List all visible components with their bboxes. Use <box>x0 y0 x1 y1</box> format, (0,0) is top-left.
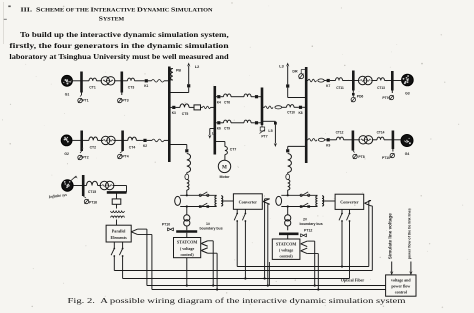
svg-text:K9: K9 <box>326 143 330 147</box>
svg-text:CT13: CT13 <box>377 86 385 90</box>
svg-text:PT10: PT10 <box>162 223 170 227</box>
svg-text:CT1: CT1 <box>89 86 96 90</box>
svg-text:Parallel: Parallel <box>112 228 127 233</box>
svg-text:PT10: PT10 <box>382 156 390 160</box>
svg-text:control): control) <box>181 253 195 257</box>
svg-text:K2: K2 <box>143 144 147 148</box>
svg-text:CT5: CT5 <box>182 112 189 116</box>
svg-text:PT12: PT12 <box>304 229 312 233</box>
svg-text:CT2: CT2 <box>90 145 97 149</box>
svg-text:CT15: CT15 <box>88 190 96 194</box>
svg-text:Elements: Elements <box>111 235 128 240</box>
svg-text:laboratory at Tsinghua Univers: laboratory at Tsinghua University must b… <box>9 52 229 61</box>
svg-text:K3: K3 <box>172 111 176 115</box>
svg-text:K7: K7 <box>326 84 330 88</box>
svg-text:PT9: PT9 <box>382 96 388 100</box>
svg-text:CT6: CT6 <box>224 101 230 105</box>
svg-text:firstly, the four generators i: firstly, the four generators in the dyna… <box>9 41 229 50</box>
svg-text:G2: G2 <box>64 152 69 156</box>
svg-text:L3: L3 <box>279 65 283 69</box>
svg-text:2#: 2# <box>303 218 307 222</box>
svg-text:Fig. 2. A possible wiring dia: Fig. 2. A possible wiring diagram of the… <box>68 297 407 305</box>
svg-text:boundary bus: boundary bus <box>300 222 323 226</box>
svg-text:control: control <box>395 290 408 295</box>
svg-text:L2: L2 <box>195 65 199 69</box>
svg-text:K8: K8 <box>298 111 302 115</box>
svg-text:PT7: PT7 <box>261 135 267 139</box>
svg-text:CT14: CT14 <box>377 131 385 135</box>
svg-text:power flow: power flow <box>391 284 410 289</box>
svg-text:CT11: CT11 <box>336 86 344 90</box>
svg-text:PT8: PT8 <box>358 155 364 159</box>
svg-text:( voltage: ( voltage <box>180 247 194 251</box>
svg-text:power flow of the tie link lin: power flow of the tie link lines <box>407 208 412 259</box>
svg-text:Optical Fiber: Optical Fiber <box>341 277 365 282</box>
svg-text:PT3: PT3 <box>122 99 128 103</box>
svg-text:G4: G4 <box>405 152 410 156</box>
svg-text:DR: DR <box>292 70 298 74</box>
svg-text:STATCOM: STATCOM <box>276 242 297 247</box>
svg-text:K4: K4 <box>217 100 221 104</box>
svg-text:L4: L4 <box>212 132 216 136</box>
svg-text:control): control) <box>280 254 294 258</box>
svg-text:K6: K6 <box>217 126 221 130</box>
svg-text:K1: K1 <box>144 84 148 88</box>
svg-text:CT10: CT10 <box>287 111 295 115</box>
svg-text:PD6: PD6 <box>357 95 364 99</box>
svg-text:CT3: CT3 <box>128 86 135 90</box>
svg-text:CT4: CT4 <box>129 145 136 149</box>
svg-text:III. SCHEME OF THE INTERACTIV: III. SCHEME OF THE INTERACTIVE DYNAMIC S… <box>21 7 213 14</box>
svg-text:PT4: PT4 <box>122 155 128 159</box>
svg-text:CT7: CT7 <box>230 148 237 152</box>
svg-text:Simulate line voltage: Simulate line voltage <box>387 212 392 259</box>
svg-text:PT1: PT1 <box>82 99 88 103</box>
svg-text:boundary bus: boundary bus <box>200 227 223 231</box>
svg-text:G1: G1 <box>65 93 70 97</box>
svg-text:SYSTEM: SYSTEM <box>99 16 125 23</box>
svg-text:To build up the interactive dy: To build up the interactive dynamic simu… <box>20 30 229 39</box>
svg-text:STATCOM: STATCOM <box>177 239 198 244</box>
svg-text:Motor: Motor <box>220 175 231 179</box>
svg-text:PB: PB <box>176 69 181 73</box>
svg-text:CT12: CT12 <box>336 131 344 135</box>
svg-text:1#: 1# <box>206 222 210 226</box>
svg-text:PT16: PT16 <box>89 201 97 205</box>
svg-text:L5: L5 <box>268 129 272 133</box>
svg-text:( voltage: ( voltage <box>279 249 293 253</box>
svg-text:Converter: Converter <box>239 200 258 205</box>
svg-text:M: M <box>222 165 227 171</box>
svg-text:CT9: CT9 <box>224 127 230 131</box>
svg-text:PT2: PT2 <box>82 156 88 160</box>
svg-text:voltage and: voltage and <box>391 278 411 283</box>
svg-text:G3: G3 <box>405 92 410 96</box>
svg-text:Converter: Converter <box>340 200 359 205</box>
